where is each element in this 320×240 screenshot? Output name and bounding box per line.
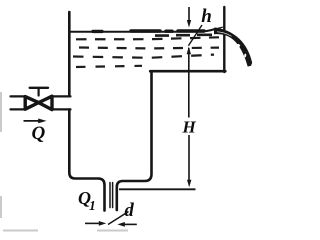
svg-text:Q: Q xyxy=(32,123,46,144)
svg-text:H: H xyxy=(182,117,197,136)
svg-text:h: h xyxy=(201,6,212,27)
svg-text:d: d xyxy=(125,201,135,221)
svg-text:1: 1 xyxy=(89,198,96,213)
